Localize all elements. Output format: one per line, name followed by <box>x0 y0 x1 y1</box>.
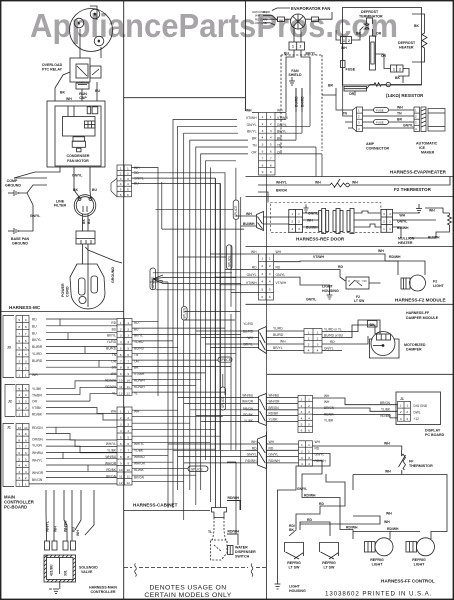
wire to display board rows <box>313 398 398 418</box>
svg-text:8: 8 <box>18 325 20 329</box>
wire bk top right <box>412 14 425 30</box>
svg-text:OR GND: OR GND <box>255 21 268 25</box>
svg-text:BK: BK <box>73 188 78 192</box>
svg-text:BU: BU <box>32 331 37 335</box>
splice cartouche v1 <box>233 200 239 219</box>
wire gn/yl ff staircase <box>278 454 331 585</box>
damper connector 4 rows <box>304 329 322 354</box>
svg-text:RD/BK: RD/BK <box>324 412 335 416</box>
svg-text:WH/BU: WH/BU <box>242 394 253 398</box>
svg-text:BU: BU <box>92 188 97 192</box>
defrost heater resistor <box>422 30 427 51</box>
wire mullion loop <box>409 213 450 238</box>
wire ref door leads left <box>236 216 246 226</box>
connector MC grid B 12 rows <box>117 319 132 396</box>
connector pin numbers <box>301 398 311 433</box>
wire bus vertical 16 <box>230 245 232 450</box>
line filter terminal left <box>78 198 81 201</box>
wire labels right of grid B <box>134 321 145 395</box>
solenoid ground symbol <box>49 589 59 594</box>
svg-text:6: 6 <box>262 150 264 154</box>
svg-text:VT/WH: VT/WH <box>276 281 287 285</box>
svg-text:TL: TL <box>208 530 212 534</box>
svg-text:3: 3 <box>18 360 20 364</box>
svg-text:RD/WH: RD/WH <box>228 496 240 500</box>
wire br/or <box>258 192 268 203</box>
svg-text:8: 8 <box>262 163 264 167</box>
svg-text:BU: BU <box>87 219 91 224</box>
svg-text:OR: OR <box>349 92 355 96</box>
svg-text:BU: BU <box>112 327 117 331</box>
svg-text:3: 3 <box>18 400 20 404</box>
svg-text:5: 5 <box>301 423 303 427</box>
svg-text:+12: +12 <box>414 417 420 421</box>
wire mesh h 283.8 <box>163 283 241 285</box>
svg-text:4: 4 <box>127 182 129 186</box>
label ground wires <box>252 10 268 25</box>
svg-text:VT/WH: VT/WH <box>246 281 257 285</box>
svg-text:3: 3 <box>127 334 129 338</box>
wire fan blades to boxes <box>285 18 312 20</box>
svg-text:WH: WH <box>66 97 72 101</box>
wire comp ground to box <box>18 185 47 193</box>
svg-text:WH/OR: WH/OR <box>242 400 254 404</box>
svg-text:RD/WH: RD/WH <box>105 385 116 389</box>
svg-text:BR: BR <box>328 84 333 88</box>
power cord plug body <box>70 264 105 309</box>
plug prong slot left <box>79 278 86 295</box>
svg-text:OR: OR <box>376 32 382 36</box>
wire bus vertical 4 <box>178 126 237 490</box>
cabinet funnel <box>258 436 267 469</box>
svg-text:BU: BU <box>72 527 76 532</box>
overload PTC relay box <box>70 58 90 82</box>
svg-text:5: 5 <box>25 387 27 391</box>
svg-text:DISPENSER: DISPENSER <box>235 550 256 554</box>
wire compressor S lead <box>79 29 81 58</box>
svg-text:BR: BR <box>397 118 402 122</box>
svg-text:GN/YL: GN/YL <box>403 124 413 128</box>
svg-text:AMP: AMP <box>366 142 375 146</box>
wire terminal block to plug <box>82 244 84 264</box>
svg-text:BR/GN: BR/GN <box>243 407 254 411</box>
wire tn into left <box>343 87 353 116</box>
svg-text:FUSE: FUSE <box>376 121 384 125</box>
wire mesh h 277.5 <box>163 277 236 279</box>
wire top loop <box>367 18 373 24</box>
line filter inner circle <box>76 197 94 215</box>
wire light housing leads left <box>210 254 258 293</box>
svg-text:6: 6 <box>308 429 310 433</box>
svg-text:WH: WH <box>341 46 347 50</box>
svg-text:1: 1 <box>262 115 264 119</box>
svg-text:RD: RD <box>269 446 274 450</box>
ff ground <box>275 584 281 589</box>
svg-text:PC-BOARD: PC-BOARD <box>4 505 27 510</box>
svg-text:RD: RD <box>338 265 343 269</box>
svg-text:YL/GN: YL/GN <box>32 444 43 448</box>
svg-text:BK: BK <box>289 528 294 532</box>
run cap box <box>76 83 89 89</box>
svg-text:RD/WH: RD/WH <box>245 459 257 463</box>
svg-text:WH: WH <box>111 410 117 414</box>
svg-text:6: 6 <box>120 353 122 357</box>
terminal block <box>76 231 95 244</box>
pin numbers cabinet connector <box>262 115 272 174</box>
svg-text:2: 2 <box>389 220 391 224</box>
ground at mullion <box>416 204 422 213</box>
svg-text:3: 3 <box>120 423 122 427</box>
svg-text:SPLICE: SPLICE <box>227 256 231 267</box>
svg-text:4: 4 <box>120 182 122 186</box>
svg-text:CERTAIN MODELS ONLY: CERTAIN MODELS ONLY <box>144 592 231 599</box>
svg-text:9: 9 <box>18 432 20 436</box>
line filter terminal right <box>89 198 92 201</box>
fuse cartouche 1 <box>374 108 389 113</box>
svg-text:1: 1 <box>298 212 300 216</box>
relay aux contact box <box>90 66 101 78</box>
svg-text:YL/RD: YL/RD <box>32 352 42 356</box>
pin numbers J2 <box>18 387 27 417</box>
svg-text:1: 1 <box>343 39 345 43</box>
refrig lt switch 2 <box>320 543 339 560</box>
splice cartouche v4 <box>182 307 188 321</box>
wire labels near board <box>380 401 391 418</box>
svg-text:WH: WH <box>54 526 58 532</box>
svg-text:YL: YL <box>112 391 116 395</box>
svg-text:5: 5 <box>25 457 27 461</box>
svg-text:5: 5 <box>120 436 122 440</box>
svg-text:WH: WH <box>276 250 282 254</box>
wire gn/yl from box bottom <box>14 167 60 178</box>
svg-text:GROUND: GROUND <box>111 267 115 283</box>
wire divider mid top <box>245 1 247 111</box>
svg-text:HOUSING: HOUSING <box>322 289 339 293</box>
wire wh row <box>274 254 386 261</box>
svg-text:HARNESS-FF: HARNESS-FF <box>406 311 430 315</box>
svg-text:1: 1 <box>291 212 293 216</box>
wire f2 thermistor lead <box>258 184 330 186</box>
svg-text:1: 1 <box>120 166 122 170</box>
terminal numbers <box>78 12 100 43</box>
svg-text:4: 4 <box>308 416 310 420</box>
svg-text:HARNESS-FF CONTROL: HARNESS-FF CONTROL <box>381 579 435 584</box>
svg-text:6: 6 <box>120 442 122 446</box>
svg-text:J1: J1 <box>7 426 11 430</box>
svg-text:FUSE: FUSE <box>346 68 356 72</box>
svg-text:DAMPER MODULE: DAMPER MODULE <box>406 316 439 320</box>
svg-text:WH: WH <box>269 440 275 444</box>
svg-text:4: 4 <box>18 464 20 468</box>
svg-text:9: 9 <box>18 318 20 322</box>
wire br to terminator <box>352 27 364 41</box>
section line evap/heater <box>246 176 454 178</box>
ref door pin numbers <box>291 212 391 231</box>
right wire labels <box>324 394 335 423</box>
svg-text:J2: J2 <box>8 400 12 404</box>
svg-text:3: 3 <box>262 129 264 133</box>
svg-text:CONDENSER: CONDENSER <box>67 154 90 158</box>
svg-text:RD/WH: RD/WH <box>269 459 281 463</box>
svg-text:6: 6 <box>120 193 122 197</box>
bk cartouche <box>368 321 378 328</box>
svg-text:9: 9 <box>25 432 27 436</box>
svg-text:HEATER: HEATER <box>398 241 413 245</box>
wire wh into top <box>336 95 353 128</box>
solenoid valve box <box>44 555 76 582</box>
wire damper funnel leads left <box>196 331 246 348</box>
amp connector strip left <box>357 107 363 132</box>
svg-text:WH: WH <box>429 209 435 213</box>
icemaker plug hatched <box>421 107 426 132</box>
svg-text:10: 10 <box>126 379 130 383</box>
wire bus vertical 1 <box>132 168 159 397</box>
svg-text:LIGHT: LIGHT <box>372 563 384 567</box>
svg-text:POWER: POWER <box>61 283 65 297</box>
harness-ref door dashed box <box>270 203 381 233</box>
wire water rd/wh 2 <box>227 534 238 545</box>
svg-text:1: 1 <box>270 115 272 119</box>
terminal crimp 1a <box>45 541 50 550</box>
svg-text:6: 6 <box>18 451 20 455</box>
svg-text:1: 1 <box>389 227 391 231</box>
wire or to connector <box>384 60 391 69</box>
relay contact arrow <box>77 66 87 76</box>
wire display funnel leads left <box>178 398 246 422</box>
svg-text:10: 10 <box>119 468 123 472</box>
cabinet pin numbers <box>301 443 310 466</box>
svg-text:2: 2 <box>291 220 293 224</box>
svg-text:THERMISTOR: THERMISTOR <box>409 464 433 468</box>
svg-text:2: 2 <box>301 404 303 408</box>
svg-text:WATER: WATER <box>235 546 248 550</box>
wire labels left of grid C <box>105 410 117 479</box>
wire terminator top <box>372 29 374 36</box>
svg-text:3: 3 <box>301 456 303 460</box>
wire ff right edge <box>402 474 425 476</box>
svg-text:COMP: COMP <box>7 179 18 183</box>
line filter outer circle <box>74 195 96 217</box>
connector J1 shell <box>3 424 14 487</box>
svg-text:J3: J3 <box>7 346 11 350</box>
evap fan ground callout <box>272 8 290 11</box>
svg-text:HARNESS-MC: HARNESS-MC <box>9 305 41 310</box>
svg-text:WH/YL: WH/YL <box>46 521 50 532</box>
wire vt/wh row <box>274 260 346 263</box>
left labels <box>246 250 257 285</box>
f2 light bulb <box>410 275 426 291</box>
svg-text:RD: RD <box>319 502 324 506</box>
svg-text:2: 2 <box>383 220 385 224</box>
svg-text:8: 8 <box>127 455 129 459</box>
wire rd between switches <box>300 522 330 536</box>
svg-text:SPLICE: SPLICE <box>191 467 204 471</box>
svg-text:PTC RELAY: PTC RELAY <box>42 68 63 72</box>
svg-text:F2: F2 <box>433 280 437 284</box>
svg-text:RD: RD <box>252 446 257 450</box>
svg-text:OR: OR <box>252 150 258 154</box>
svg-text:11: 11 <box>119 385 122 389</box>
svg-text:8: 8 <box>25 438 27 442</box>
svg-text:2: 2 <box>25 476 27 480</box>
svg-text:2: 2 <box>25 367 27 371</box>
plug ground prong <box>79 296 86 303</box>
svg-text:3: 3 <box>18 470 20 474</box>
wire wh thermistor <box>353 474 402 476</box>
svg-text:10: 10 <box>126 468 130 472</box>
wire rows amp connector <box>363 109 415 111</box>
section line harness-cabinet <box>124 510 210 512</box>
svg-text:SPLICE: SPLICE <box>220 358 231 362</box>
wire relay to run cap <box>81 82 83 83</box>
svg-text:BK/GN: BK/GN <box>32 478 43 482</box>
connector J2 pin grid 5 rows <box>16 385 29 417</box>
svg-text:BU/WH: BU/WH <box>243 222 255 226</box>
svg-text:REFRIG: REFRIG <box>370 558 384 562</box>
svg-text:5: 5 <box>261 287 263 291</box>
wire divider left column <box>123 1 125 599</box>
ground tick <box>85 247 88 250</box>
wire bus vertical 2 <box>150 282 168 508</box>
svg-text:2: 2 <box>18 476 20 480</box>
svg-text:BK: BK <box>370 323 375 327</box>
display pc board box <box>396 392 441 425</box>
light housing ground <box>327 292 333 299</box>
svg-text:BU: BU <box>95 89 100 93</box>
svg-text:BU/RD or BU: BU/RD or BU <box>324 334 344 338</box>
svg-text:1: 1 <box>308 443 310 447</box>
svg-text:SOLENOID: SOLENOID <box>79 566 98 570</box>
wire bus vertical 5 lower <box>183 320 185 520</box>
svg-text:7: 7 <box>120 449 122 453</box>
svg-text:4: 4 <box>25 353 27 357</box>
connector J2 shell <box>5 385 15 417</box>
wire funnel to connector rows <box>266 331 304 351</box>
wire right column verticals <box>286 88 322 177</box>
svg-text:6: 6 <box>127 353 129 357</box>
svg-text:WH: WH <box>384 520 390 524</box>
svg-text:CONNECTOR: CONNECTOR <box>366 147 389 151</box>
svg-text:BU/WH: BU/WH <box>397 226 409 230</box>
motorized damper body <box>370 339 400 358</box>
svg-text:WH: WH <box>248 336 254 340</box>
svg-text:WH: WH <box>378 249 384 253</box>
svg-text:YL/RD or YL: YL/RD or YL <box>324 328 342 332</box>
svg-text:WH/YL: WH/YL <box>32 458 43 462</box>
ground gn/yl <box>304 205 309 213</box>
wire fuse down <box>342 44 344 88</box>
wire mesh h 209.7 <box>156 209 234 211</box>
svg-text:BK/YL: BK/YL <box>306 52 316 56</box>
svg-text:BK: BK <box>414 24 419 28</box>
svg-text:6: 6 <box>301 429 303 433</box>
wire mesh h 311.6 <box>184 311 240 313</box>
svg-text:RD: RD <box>315 446 320 450</box>
svg-text:GN/YL: GN/YL <box>247 453 257 457</box>
section line damper bottom <box>267 373 453 375</box>
run cap plates <box>78 84 87 86</box>
svg-text:WH: WH <box>386 512 392 516</box>
svg-text:4: 4 <box>25 393 27 397</box>
svg-text:BU/WH: BU/WH <box>306 226 318 230</box>
wire wh to ground and right <box>393 208 444 213</box>
evaporator fan motor circle <box>291 14 306 29</box>
svg-text:OVERLOAD: OVERLOAD <box>42 63 63 67</box>
svg-text:WH: WH <box>324 394 330 398</box>
svg-text:5: 5 <box>270 143 272 147</box>
svg-text:GN/YL: GN/YL <box>397 219 407 223</box>
refrig light 1 socket <box>365 542 376 553</box>
wire box to line filter BK <box>74 167 80 198</box>
svg-text:SWITCH: SWITCH <box>235 555 250 559</box>
svg-text:6: 6 <box>127 193 129 197</box>
section line mullion bottom <box>246 246 454 248</box>
svg-text:BR/GN: BR/GN <box>324 406 335 410</box>
svg-text:MULLION: MULLION <box>398 237 415 241</box>
ref door connector 3 pin right <box>381 209 393 232</box>
svg-text:1: 1 <box>406 404 408 408</box>
pin numbers J3 <box>18 318 27 377</box>
svg-text:BR/GN: BR/GN <box>269 406 280 410</box>
svg-text:RD/WH: RD/WH <box>304 494 316 498</box>
wire bus vertical 5 upper <box>184 133 238 306</box>
wire thermistor right <box>349 177 450 186</box>
svg-text:7: 7 <box>18 445 20 449</box>
wire water rd/wh 1 <box>227 501 240 511</box>
connector MC grid A wedge <box>111 178 117 197</box>
squiggle break 2 <box>251 564 253 577</box>
svg-text:2: 2 <box>399 67 401 71</box>
funnel right labels <box>273 327 286 351</box>
svg-text:3: 3 <box>120 334 122 338</box>
svg-text:10: 10 <box>119 379 123 383</box>
svg-text:4: 4 <box>261 280 263 284</box>
ff thermistor symbol <box>399 450 406 475</box>
thermal bar component <box>344 87 367 92</box>
wire funnel to connector bu/wh <box>263 223 289 225</box>
cabinet connector 4 rows <box>299 441 313 466</box>
defrost terminator thermostat symbol <box>364 24 370 29</box>
svg-text:3: 3 <box>383 212 385 216</box>
wires main controller down <box>45 490 48 541</box>
svg-text:J1: J1 <box>400 397 404 401</box>
svg-text:WH: WH <box>277 109 283 113</box>
svg-text:RD: RD <box>252 265 257 269</box>
switch com lever <box>349 280 362 286</box>
splice cartouche h1 <box>218 357 232 362</box>
tl switch dashed <box>211 540 228 560</box>
wire section line mid y98 <box>124 97 246 99</box>
wire connector to damper staircase <box>322 320 380 334</box>
svg-text:4: 4 <box>127 340 129 344</box>
svg-text:WH: WH <box>315 440 321 444</box>
svg-text:3: 3 <box>127 177 129 181</box>
svg-text:CORD: CORD <box>66 286 70 297</box>
wire wh left <box>336 30 341 40</box>
fan shield ground <box>289 77 295 85</box>
resistor 14k small <box>372 83 383 87</box>
display j1 pin numbers <box>400 404 409 421</box>
evaporator fan blades <box>293 14 303 29</box>
svg-text:REFRIG: REFRIG <box>412 558 426 562</box>
svg-text:3: 3 <box>270 129 272 133</box>
svg-text:3: 3 <box>308 456 310 460</box>
section line denotes top <box>124 567 267 569</box>
svg-text:BU: BU <box>284 52 289 56</box>
svg-text:BK: BK <box>82 219 86 224</box>
harness-mc divider <box>1 311 124 313</box>
svg-text:TN/BR: TN/BR <box>32 393 43 397</box>
